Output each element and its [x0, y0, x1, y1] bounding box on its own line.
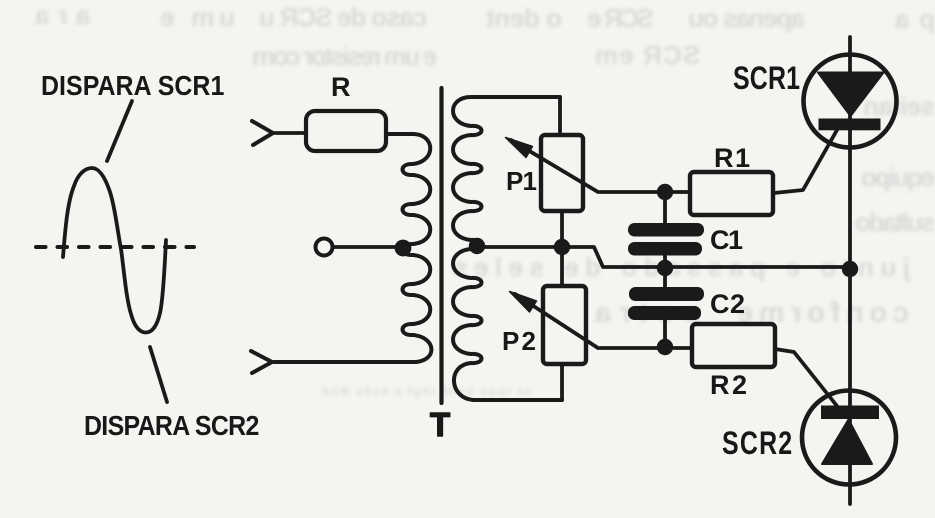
potentiometer P1 body [541, 135, 583, 211]
wire center-tap to primary [333, 245, 398, 249]
sine waveform [63, 168, 166, 333]
wire R2 to SCR2 gate [775, 349, 837, 406]
svg-text:SCR em: SCR em [595, 40, 700, 70]
svg-text:sultado: sultado [855, 207, 935, 237]
svg-text:C1: C1 [710, 225, 743, 255]
transformer secondary winding [453, 97, 562, 400]
potentiometer P2 wiper arrow [515, 294, 598, 348]
svg-text:caso de SCR u: caso de SCR u [259, 2, 427, 32]
input terminal (bottom) [251, 351, 272, 373]
svg-text:ara: ara [34, 0, 90, 30]
junction dot P1/P2 [554, 239, 570, 255]
junction dot C2 bottom [657, 339, 673, 355]
wire input to R [273, 131, 306, 135]
capacitor C2 [628, 287, 704, 320]
wire C1 bottom to center line [663, 255, 667, 268]
svg-text:DISPARA SCR1: DISPARA SCR1 [41, 70, 224, 102]
svg-text:R1: R1 [714, 143, 750, 173]
junction dot center line / C string [657, 260, 673, 276]
junction dot secondary center tap [469, 238, 485, 254]
resistor R1 [690, 172, 773, 215]
transformer primary winding (with lead from R and bottom lead) [274, 134, 431, 362]
svg-text:o dent: o dent [486, 3, 562, 33]
svg-text:SCR abcd e fghi klmn opqr st: SCR abcd e fghi klmn opqr st [322, 386, 530, 398]
wire P2 top [560, 247, 564, 286]
SCR1 [804, 55, 897, 148]
input terminal (top) [252, 121, 273, 145]
SCR2 [802, 391, 896, 485]
main vertical wire (SCR string) [848, 37, 852, 504]
svg-text:apenas ou: apenas ou [688, 3, 805, 33]
svg-text:DISPARA SCR2: DISPARA SCR2 [84, 410, 259, 442]
wire C2 top [663, 268, 667, 287]
junction dot main line / center tap [842, 261, 858, 277]
junction dot primary center tap [395, 240, 412, 257]
svg-text:SCR1: SCR1 [733, 61, 800, 97]
potentiometer P1 wiper arrow [511, 140, 598, 192]
resistor R2 [692, 324, 775, 367]
svg-text:T: T [430, 406, 450, 443]
wire P2 wiper to R2 [600, 346, 692, 350]
dashed zero axis [36, 245, 194, 249]
svg-text:SCR e: SCR e [587, 3, 654, 33]
wire secondary top to P1 [558, 97, 562, 135]
svg-text:um e: um e [160, 2, 235, 32]
svg-text:SCR2: SCR2 [722, 426, 792, 462]
wire P1 wiper to R1 [600, 190, 690, 194]
svg-text:P2: P2 [502, 326, 536, 356]
potentiometer P2 body [543, 286, 586, 364]
center-tap terminal circle [316, 239, 333, 256]
leader line to negative half-cycle [150, 347, 167, 402]
svg-text:equipo: equipo [861, 162, 935, 192]
capacitor C1 [628, 223, 704, 256]
svg-text:P1: P1 [506, 166, 537, 196]
background bleed-through (decorative) [34, 0, 935, 398]
transformer core [439, 88, 443, 403]
svg-text:R: R [331, 72, 351, 102]
svg-text:C2: C2 [710, 289, 745, 319]
svg-text:R2: R2 [710, 370, 747, 400]
wire C1 top [663, 192, 667, 223]
wire C2 bottom [663, 320, 667, 347]
resistor R [306, 111, 386, 151]
wire P2 bottom to secondary bottom [560, 364, 564, 400]
wire R1 to SCR1 gate [774, 130, 837, 193]
wire P1 bottom to center line [560, 211, 564, 247]
junction dot C1 top [657, 184, 673, 200]
center tap line [477, 247, 845, 267]
leader line to positive half-cycle [107, 101, 132, 161]
svg-text:e um resistor com: e um resistor com [252, 41, 437, 71]
svg-text:seitan: seitan [863, 91, 935, 121]
